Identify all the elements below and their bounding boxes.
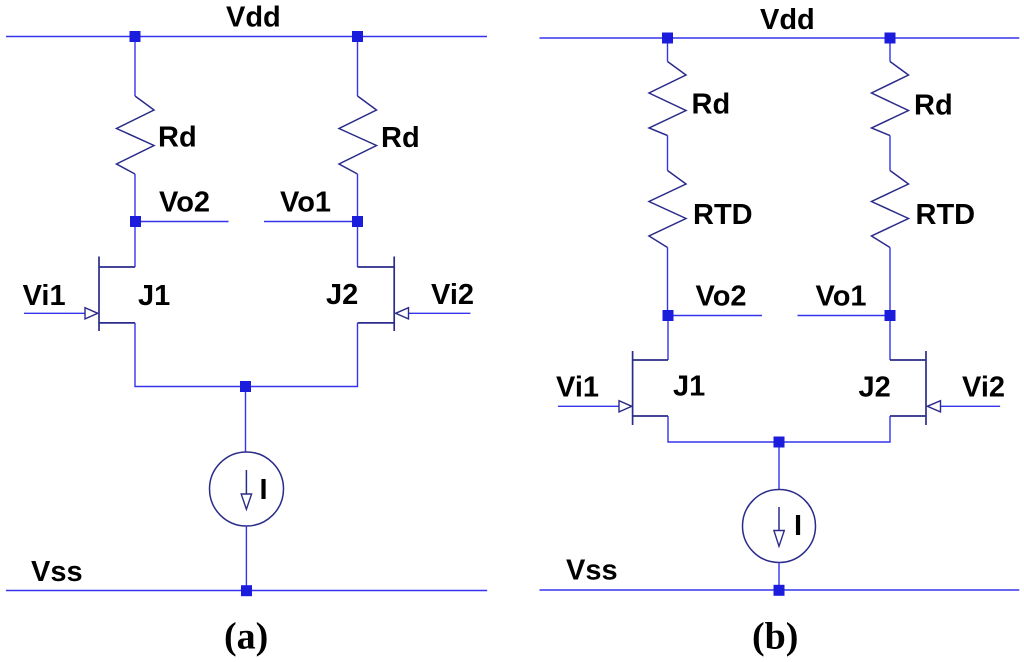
svg-text:Vo2: Vo2 [696,281,747,313]
svg-text:(a): (a) [224,616,268,658]
svg-text:Vo1: Vo1 [816,281,867,313]
svg-text:Vi1: Vi1 [556,372,599,404]
svg-text:I: I [794,510,802,542]
svg-text:Rd: Rd [914,90,953,122]
svg-text:RTD: RTD [693,199,753,231]
svg-text:Vo1: Vo1 [280,187,331,219]
svg-text:(b): (b) [752,616,798,658]
svg-text:Vdd: Vdd [226,2,281,34]
svg-text:Vi2: Vi2 [431,279,474,311]
svg-text:Vdd: Vdd [760,4,815,36]
svg-text:Vss: Vss [566,555,618,587]
svg-text:Rd: Rd [692,89,731,121]
svg-text:Vss: Vss [31,556,83,588]
svg-text:J2: J2 [859,372,891,404]
svg-text:Vi2: Vi2 [962,372,1005,404]
svg-text:RTD: RTD [916,199,976,231]
svg-text:Vo2: Vo2 [159,187,210,219]
svg-text:J1: J1 [138,280,170,312]
svg-text:J2: J2 [326,279,358,311]
svg-text:Vi1: Vi1 [23,280,66,312]
svg-text:Rd: Rd [158,122,197,154]
svg-text:Rd: Rd [381,122,420,154]
svg-text:J1: J1 [673,371,705,403]
svg-text:I: I [260,474,268,506]
